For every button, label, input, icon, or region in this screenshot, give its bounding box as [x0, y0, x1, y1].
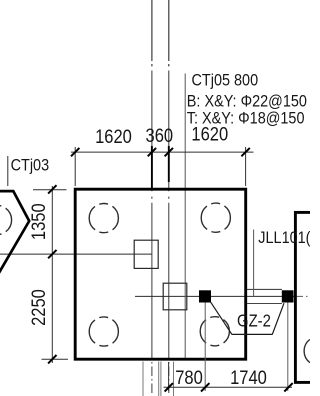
horizontal axis line y=296 — [135, 295, 294, 297]
GZ-2 leader landing line — [232, 333, 273, 335]
tie beam JLL101 outline top — [247, 288, 282, 290]
tie beam JLL101 outline bottom — [247, 303, 282, 305]
bottom dimension line — [164, 386, 293, 388]
column GZ-2 left (filled) — [199, 290, 211, 302]
CTj03 leader line — [7, 156, 9, 186]
pile circle bottom-left — [89, 317, 118, 346]
small square 2 (column base plate) — [163, 283, 187, 310]
extension line below right column — [287, 303, 289, 392]
centerline axis B (vertical, x=168.8) — [168, 0, 170, 396]
CTj03 pile circle (clipped) — [0, 205, 12, 234]
tick mark top dim at cap left edge — [71, 148, 79, 156]
tick mark bottom dim at axis B — [165, 383, 173, 391]
svg-text:CTj05 800: CTj05 800 — [192, 71, 259, 89]
left dim extension top — [33, 189, 67, 191]
column GZ-2 right (filled) — [282, 290, 294, 302]
svg-text:360: 360 — [146, 125, 174, 146]
tick mark bottom dim at left column — [201, 383, 209, 391]
pile circle bottom-right — [200, 317, 229, 346]
axis A extension segment (thick) — [151, 146, 153, 190]
top dimension line — [71, 151, 254, 153]
wall edge line below cap (right of axis A) — [158, 362, 160, 396]
svg-text:B: X&Y: Φ22@150: B: X&Y: Φ22@150 — [187, 92, 307, 110]
tick mark left dim at mid axis — [48, 250, 56, 258]
JLL101 leader line — [253, 230, 255, 297]
centerline axis A (vertical, x=152) — [151, 0, 153, 396]
wall edge line below cap (right of axis B) — [173, 362, 175, 396]
pile cap outline (big square) — [75, 189, 246, 359]
svg-text:JLL101(2: JLL101(2 — [258, 229, 310, 247]
CTj03 pile cap polygon (clipped) — [0, 191, 29, 274]
horizontal axis centerline continuation right — [296, 295, 310, 297]
svg-text:GZ-2: GZ-2 — [237, 311, 271, 330]
top dim extension right (x=245.6) — [245, 147, 247, 186]
pile circle top-right — [201, 203, 230, 232]
tick mark top dim at axis B — [165, 148, 173, 156]
svg-text:1740: 1740 — [230, 367, 267, 388]
leader line for CTj05 note (x=185) — [184, 74, 186, 360]
pile circle top-left — [89, 204, 118, 233]
GZ-2 leader diagonal from left column — [211, 302, 232, 334]
svg-text:780: 780 — [175, 367, 203, 388]
horizontal axis line y=254 — [0, 253, 152, 255]
tick mark bottom dim at right column — [284, 383, 292, 391]
svg-text:1350: 1350 — [28, 203, 49, 240]
svg-text:CTj03: CTj03 — [11, 156, 50, 174]
GZ-2 leader diagonal to right column — [272, 303, 284, 334]
wall edge line below cap (left of axis B) — [160, 362, 162, 396]
svg-text:1620: 1620 — [95, 126, 132, 147]
adjacent pile cap outline right (clipped) — [295, 212, 320, 382]
axis B extension segment (thick) — [168, 146, 170, 182]
svg-text:1620: 1620 — [191, 123, 228, 144]
svg-text:2250: 2250 — [28, 289, 49, 326]
tick mark left dim at cap bottom edge — [48, 355, 56, 363]
small square 1 (column base plate) — [134, 240, 158, 268]
left dimension line — [51, 186, 53, 363]
extension line below left column — [204, 303, 206, 392]
extension line over axis B below cap — [168, 362, 170, 391]
tick mark left dim at cap top edge — [48, 185, 56, 193]
tick mark top dim at axis A — [148, 148, 156, 156]
tick mark top dim at cap right edge — [241, 148, 249, 156]
top dim extension left (x=75) — [74, 147, 76, 186]
adjacent pile circle (clipped) — [304, 336, 320, 365]
wall edge line below cap (left of axis A) — [142, 362, 144, 396]
left dim extension bottom — [42, 358, 69, 360]
